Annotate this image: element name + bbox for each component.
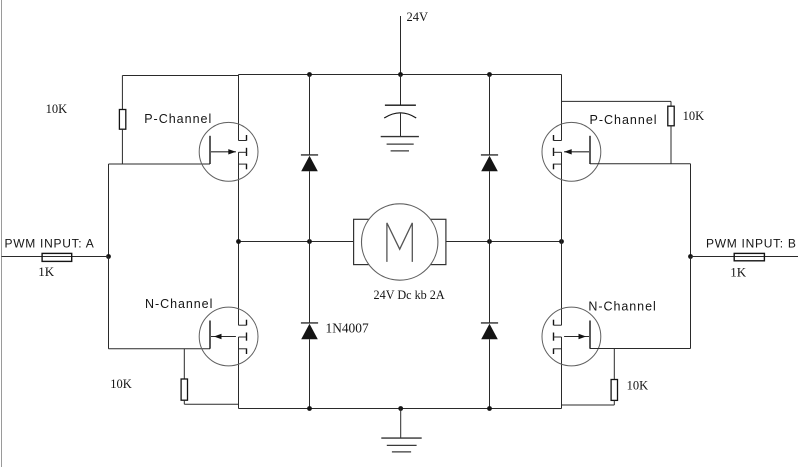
svg-text:PWM INPUT: B: PWM INPUT: B <box>706 237 797 251</box>
label N-Channel left <box>145 297 213 311</box>
resistor R2 1K input left <box>42 253 72 261</box>
svg-text:10K: 10K <box>46 102 68 116</box>
resistor R5 value 1K <box>730 265 747 280</box>
junction mid rail left diode <box>307 239 312 244</box>
junction mid rail left bridge <box>236 239 241 244</box>
capacitor C1 bottom lead <box>400 113 402 136</box>
diode D1 lead bottom <box>309 171 311 241</box>
svg-text:1N4007: 1N4007 <box>326 320 369 335</box>
wire right bridge vertical drain segment <box>561 75 563 141</box>
svg-text:24V: 24V <box>407 10 429 24</box>
resistor R4 10K pull-up right branch <box>562 101 672 106</box>
diode D1 top-left lead top <box>309 75 311 155</box>
resistor R4 value 10K <box>683 109 705 123</box>
resistor R6 value 10K <box>627 378 649 392</box>
label 1N4007 <box>326 320 369 335</box>
diode D3 1N4007 <box>301 323 318 339</box>
label PWM INPUT: A <box>5 237 95 251</box>
capacitor C1 top lead <box>400 75 402 106</box>
wire right bridge vertical lower segment <box>561 337 563 409</box>
junction PWM input A node <box>106 254 111 259</box>
wire left bridge vertical lower segment <box>238 337 240 409</box>
label P-Channel left <box>144 112 212 126</box>
diode D2 1N4007 <box>481 155 498 171</box>
wire PWM input B <box>691 256 798 258</box>
junction top rail supply <box>398 72 403 77</box>
capacitor C1 curved plate <box>384 113 416 118</box>
node 24V <box>407 10 429 24</box>
svg-text:PWM INPUT: A: PWM INPUT: A <box>5 237 95 251</box>
label motor 24V Dc kb 2A <box>374 288 445 302</box>
svg-text:24V Dc kb 2A: 24V Dc kb 2A <box>374 288 445 302</box>
diode D4 bottom-right lead top <box>489 242 491 323</box>
svg-text:10K: 10K <box>110 377 132 391</box>
svg-text:10K: 10K <box>683 109 705 123</box>
resistor R1 10K pull-up left lead top <box>121 76 123 110</box>
ground under capacitor <box>381 137 419 151</box>
wire middle rail right <box>446 241 562 243</box>
wire right bridge vertical middle segment <box>561 152 563 325</box>
junction mid rail right bridge <box>559 239 564 244</box>
transistor Q2 P-Channel right <box>542 122 601 181</box>
resistor R1 10K pull-up left <box>119 110 125 130</box>
wire top rail <box>239 74 562 76</box>
wire middle rail left <box>239 241 354 243</box>
svg-text:1K: 1K <box>730 265 747 280</box>
wire right gate bus upper <box>690 164 692 257</box>
resistor R2 value 1K <box>38 264 55 279</box>
junction top rail left diode <box>307 72 312 77</box>
junction bottom rail ground <box>398 406 403 411</box>
resistor R6 10K pull-down right top lead <box>613 349 615 380</box>
resistor R3 10K pull-down left top lead <box>183 349 185 379</box>
label N-Channel right <box>588 299 656 313</box>
capacitor C1 top plate <box>385 104 416 106</box>
svg-text:1K: 1K <box>38 264 55 279</box>
junction top rail right diode <box>487 72 492 77</box>
resistor R1 bottom lead <box>121 129 123 164</box>
ground main stem <box>400 409 402 438</box>
resistor R5 1K input right <box>734 253 764 260</box>
diode D1 1N4007 <box>301 155 318 171</box>
motor M1 left terminal bracket <box>354 219 373 264</box>
wire P-channel gate line left <box>109 163 211 165</box>
wire P-channel gate line right <box>590 163 691 165</box>
wire left bridge vertical drain segment <box>238 75 240 141</box>
svg-text:N-Channel: N-Channel <box>588 299 656 313</box>
svg-text:P-Channel: P-Channel <box>590 113 658 127</box>
wire N-channel gate line left <box>109 348 211 350</box>
label P-Channel right <box>590 113 658 127</box>
wire left gate bus lower <box>108 257 110 349</box>
wire right gate bus lower <box>690 257 692 349</box>
wire 24V supply feed <box>400 16 402 75</box>
resistor R1 value 10K <box>46 102 68 116</box>
junction bottom rail left diode <box>307 406 312 411</box>
label PWM INPUT: B <box>706 237 797 251</box>
junction bottom rail right diode <box>487 406 492 411</box>
diode D2 top-right lead top <box>489 75 491 155</box>
resistor R4 10K pull-up right <box>668 106 674 126</box>
svg-text:N-Channel: N-Channel <box>145 297 213 311</box>
motor M1 body <box>362 204 438 280</box>
resistor R6 10K pull-down right <box>611 380 617 401</box>
diode D3 lead bottom <box>309 339 311 408</box>
wire left bridge vertical middle segment <box>238 152 240 325</box>
resistor R4 bottom lead <box>670 126 672 164</box>
wire top rail left extension <box>122 75 238 77</box>
wire left gate bus upper <box>108 164 110 257</box>
diode D2 lead bottom <box>489 171 491 241</box>
diode D3 bottom-left lead top <box>309 242 311 323</box>
resistor R6 bottom lead <box>562 400 615 405</box>
ground main symbol <box>381 438 421 452</box>
transistor Q3 N-Channel left <box>199 307 258 366</box>
resistor R3 bottom lead <box>184 400 238 404</box>
diode D4 1N4007 <box>481 323 498 339</box>
resistor R3 10K pull-down left <box>181 379 187 400</box>
wire bottom rail <box>239 408 562 410</box>
junction mid rail right diode <box>487 239 492 244</box>
wire N-channel gate line right <box>590 348 691 350</box>
motor M1 right terminal bracket <box>427 219 446 264</box>
transistor Q1 P-Channel left <box>199 122 258 181</box>
resistor R3 value 10K <box>110 377 132 391</box>
svg-text:P-Channel: P-Channel <box>144 112 212 126</box>
transistor Q4 N-Channel right <box>542 307 601 366</box>
junction PWM input B node <box>688 254 693 259</box>
diode D4 lead bottom <box>489 339 491 408</box>
wire PWM input A <box>2 256 109 258</box>
svg-text:10K: 10K <box>627 378 649 392</box>
